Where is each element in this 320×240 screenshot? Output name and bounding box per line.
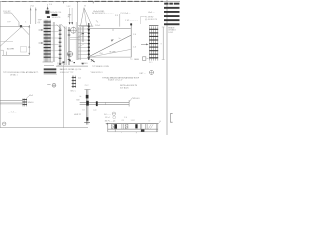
svg-text:L3x3 —: L3x3 — bbox=[148, 12, 155, 14]
plan verticals c bbox=[145, 124, 147, 129]
plan bolt block 2 bbox=[135, 124, 137, 128]
svg-text:1: 1 bbox=[25, 21, 26, 23]
plan verticals b bbox=[139, 124, 141, 129]
column C3 flange lines bbox=[150, 26, 158, 60]
svg-text:SLOPE: SLOPE bbox=[109, 52, 116, 54]
svg-text:1'-6: 1'-6 bbox=[133, 46, 136, 48]
column C3 bolt rows bbox=[149, 29, 158, 58]
plan right end bbox=[155, 124, 157, 132]
svg-text:— 1'-3 —: — 1'-3 — bbox=[8, 111, 16, 113]
frame post cap bbox=[130, 23, 132, 25]
dimension vertical bbox=[28, 25, 30, 55]
anchor arrows bbox=[69, 22, 71, 24]
stub gridline bbox=[119, 14, 121, 27]
brace diagonal bbox=[89, 35, 132, 57]
plan lower dark block bbox=[141, 130, 145, 132]
svg-text:5/8 x 1: 5/8 x 1 bbox=[105, 117, 110, 119]
left corner bracket bbox=[1, 50, 4, 55]
junction bolts bbox=[20, 25, 22, 27]
gusset gridline bbox=[76, 4, 78, 60]
plan left arrow bbox=[105, 123, 108, 125]
svg-text:DET 2: DET 2 bbox=[57, 65, 62, 67]
hatched strip 1 bbox=[111, 124, 114, 129]
plan lower line bbox=[108, 131, 158, 133]
svg-text:3/4 — —: 3/4 — — bbox=[104, 114, 111, 116]
plan bolt block 1 bbox=[115, 124, 117, 129]
svg-text:* SEE NOTE 3: * SEE NOTE 3 bbox=[90, 72, 102, 74]
svg-text:2L3x3: 2L3x3 bbox=[95, 25, 100, 27]
end plate bbox=[22, 98, 24, 106]
top border tick x77 bbox=[76, 1, 78, 3]
dim mid arrow bbox=[28, 45, 30, 47]
stiffener ties bbox=[78, 25, 88, 58]
hanger post lines bbox=[86, 89, 88, 124]
svg-text:PL 1: PL 1 bbox=[149, 62, 152, 64]
web line pair bbox=[81, 27, 83, 43]
top border tick x63 bbox=[62, 1, 64, 3]
svg-text:W8x10: W8x10 bbox=[28, 102, 34, 104]
svg-text:BASE PL DETAIL @ COL: BASE PL DETAIL @ COL bbox=[60, 68, 82, 71]
leader bracket bbox=[141, 16, 145, 24]
base plate bolts bbox=[59, 63, 61, 64]
svg-text:W12x26 COL: W12x26 COL bbox=[50, 12, 61, 14]
partition line bbox=[62, 62, 64, 128]
column C2 top angles bbox=[57, 25, 61, 29]
section bubble B2 bbox=[67, 51, 72, 56]
dim extension line a bbox=[30, 8, 32, 25]
column C3 left arrow bbox=[141, 43, 148, 45]
column C2 base line bbox=[56, 65, 88, 67]
frame bottom chord bbox=[87, 56, 131, 58]
datum bubble bbox=[2, 122, 6, 126]
left arrow 1 bbox=[39, 29, 44, 31]
beam top flange bbox=[80, 101, 130, 103]
svg-text:DET —: DET — bbox=[140, 73, 146, 75]
eave base line bbox=[0, 25, 29, 27]
right bracket detail bbox=[170, 114, 172, 123]
dark table row2 bbox=[44, 72, 57, 74]
svg-text:BASE: BASE bbox=[134, 58, 140, 61]
column C2 web lines bbox=[59, 25, 66, 66]
end plate bolts bbox=[22, 100, 27, 105]
revision table dark rows bbox=[164, 3, 180, 25]
post stub bbox=[18, 22, 20, 26]
mid splice blob bbox=[96, 101, 98, 106]
svg-text:1'-0: 1'-0 bbox=[124, 117, 127, 119]
frame post bbox=[130, 23, 132, 57]
svg-text:L5x5: L5x5 bbox=[29, 95, 33, 97]
section marker S1 bbox=[47, 83, 50, 85]
dim extension line b bbox=[35, 8, 37, 25]
brace to column bbox=[22, 27, 29, 35]
faint box bbox=[21, 47, 27, 53]
svg-text:1 1/2 — — — –: 1 1/2 — — — – bbox=[125, 20, 139, 22]
brace down-left bbox=[0, 28, 21, 47]
left beam flange lines bbox=[0, 101, 22, 104]
column C1 top arrow bbox=[47, 7, 49, 10]
svg-text:PL 1/2x8 —: PL 1/2x8 — bbox=[121, 13, 131, 15]
svg-text:PL 2: PL 2 bbox=[85, 85, 89, 87]
svg-text:2x2: 2x2 bbox=[78, 78, 81, 80]
bottom line of detail bbox=[2, 54, 29, 56]
tie diagonals bbox=[78, 33, 84, 47]
plan below ticks bbox=[135, 132, 137, 133]
svg-text:4x: 4x bbox=[79, 96, 81, 98]
svg-text:SLOPE: SLOPE bbox=[7, 49, 15, 51]
small tick bbox=[96, 20, 98, 22]
svg-text:4x4: 4x4 bbox=[70, 61, 73, 63]
svg-text:HGR 22: HGR 22 bbox=[74, 114, 81, 116]
end plate leader bbox=[27, 95, 30, 98]
tick bbox=[5, 52, 7, 56]
column C2 bolts bbox=[59, 30, 62, 58]
svg-text:4'-0: 4'-0 bbox=[100, 53, 103, 55]
svg-text:SCALE: 1/4"=1'-0": SCALE: 1/4"=1'-0" bbox=[108, 79, 123, 82]
svg-text:1 1/2: 1 1/2 bbox=[131, 120, 135, 122]
svg-text:3/4 BOLTS: 3/4 BOLTS bbox=[52, 17, 62, 19]
hanger top tee bbox=[84, 89, 90, 91]
svg-text:S-502: S-502 bbox=[168, 32, 173, 34]
svg-text:1'-6: 1'-6 bbox=[133, 34, 136, 36]
left border bbox=[0, 1, 2, 127]
column C1 base bbox=[43, 61, 54, 63]
column C1 centerline bbox=[47, 4, 49, 10]
leader line bbox=[0, 40, 13, 42]
hanger bolt blob 1 bbox=[86, 95, 89, 99]
dark label box bbox=[52, 14, 58, 16]
column flange pair bbox=[52, 22, 54, 62]
frame top chord bbox=[87, 28, 131, 30]
beam mid tick bbox=[105, 102, 107, 104]
svg-text:1'-0: 1'-0 bbox=[49, 4, 52, 6]
column C1 bolt rows bbox=[44, 22, 51, 57]
column C1 flange lines bbox=[44, 20, 50, 62]
beam end leader bbox=[129, 98, 132, 102]
top border line bbox=[0, 0, 180, 2]
svg-text:1a: 1a bbox=[119, 38, 121, 40]
right dim line bbox=[162, 27, 164, 60]
roof slope line bbox=[11, 13, 19, 22]
stub detail bbox=[72, 76, 75, 88]
post D ties bbox=[70, 37, 80, 39]
table underline bbox=[44, 73, 57, 75]
bolted stiffener column bbox=[88, 23, 90, 60]
column face line bbox=[75, 22, 77, 60]
svg-text:W/ 3/4" BOLTS — — — –: W/ 3/4" BOLTS — — — – bbox=[92, 13, 114, 15]
right border bbox=[166, 0, 168, 135]
svg-text:3/4 PL — (2): 3/4 PL — (2) bbox=[105, 121, 116, 123]
svg-text:1a: 1a bbox=[130, 58, 132, 60]
svg-text:1/4: 1/4 bbox=[82, 110, 85, 112]
splice ties bbox=[51, 25, 59, 57]
column C1 splice plate bbox=[45, 11, 49, 14]
light hatch right bbox=[148, 124, 153, 129]
splice lower plate bbox=[47, 16, 50, 18]
gusset triangle bbox=[81, 8, 93, 26]
beam bottom flange bbox=[80, 104, 130, 106]
hanger junction blob bbox=[86, 101, 89, 106]
hanger bolt blob 2 bbox=[86, 117, 88, 120]
brace diagonal 2 bbox=[88, 49, 131, 57]
section bubble B1 bbox=[71, 27, 77, 33]
svg-text:(6) 3/4 BOLTS: (6) 3/4 BOLTS bbox=[145, 19, 158, 21]
svg-text:W12x19: W12x19 bbox=[133, 98, 140, 100]
svg-text:3/4" A325: 3/4" A325 bbox=[120, 87, 129, 90]
top border tick x93 bbox=[92, 1, 94, 3]
hanger tick bbox=[84, 122, 90, 124]
chord tick bbox=[112, 29, 114, 31]
plan lower connector bbox=[114, 129, 116, 132]
long datum line bbox=[0, 127, 88, 129]
svg-text:C8: C8 bbox=[121, 120, 123, 122]
beam end tick bbox=[128, 100, 130, 107]
svg-text:TYP. ROOF EDGE CONN. AT BRACE: TYP. ROOF EDGE CONN. AT BRACE PT. bbox=[3, 71, 39, 74]
svg-text:SEC C: SEC C bbox=[70, 90, 76, 92]
post D bolts bbox=[68, 30, 71, 59]
svg-text:3 SIDES: 3 SIDES bbox=[81, 63, 89, 65]
weld marks bbox=[91, 59, 95, 62]
roof top line bbox=[4, 12, 12, 14]
svg-text:(4): (4) bbox=[38, 22, 41, 24]
plan top line bbox=[108, 123, 159, 125]
svg-text:TYP BRACE CONN: TYP BRACE CONN bbox=[92, 65, 109, 68]
sheet background bbox=[0, 0, 180, 135]
left arrow 2 bbox=[39, 42, 44, 44]
svg-text:8x8: 8x8 bbox=[76, 100, 79, 102]
anchor rod lines bbox=[69, 8, 71, 22]
dark table row1 bbox=[44, 68, 57, 70]
plan verticals a bbox=[121, 124, 123, 129]
hatched strip 2 bbox=[125, 124, 128, 129]
svg-text:9: 9 bbox=[161, 44, 162, 46]
plan right leader bbox=[158, 122, 160, 124]
plan bottom line bbox=[108, 128, 158, 130]
svg-text:DETAIL 1: DETAIL 1 bbox=[10, 74, 18, 77]
plan left end bbox=[107, 124, 109, 132]
post D lines bbox=[68, 27, 80, 65]
column C3 cap bbox=[149, 24, 158, 26]
svg-text:SCALE 3/4" TYP: SCALE 3/4" TYP bbox=[60, 71, 74, 74]
